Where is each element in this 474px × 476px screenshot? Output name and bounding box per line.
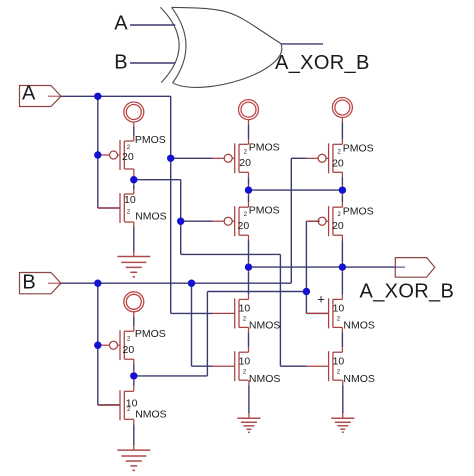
wire gate input B (130, 62, 175, 64)
node B junction at M11 gate (94, 342, 101, 349)
wire M10 source to ground (342, 380, 344, 385)
wire mid node to M4 source (248, 190, 250, 195)
wire inverter1 NMOS gate stub (98, 207, 120, 209)
wire net A to M5 gate (171, 312, 213, 314)
vdd supply V1 (inverter1) (124, 102, 144, 122)
wire net ABAR to M4 gate (181, 220, 213, 222)
wire net A vertical (170, 96, 172, 313)
svg-text:20: 20 (332, 158, 344, 170)
pmos M1 (inverter1) (98, 134, 166, 170)
svg-text:A_XOR_B: A_XOR_B (360, 280, 455, 302)
svg-text:A: A (114, 12, 128, 34)
wire M2 source to ground (133, 222, 135, 227)
wire M3 gate from net A (171, 157, 213, 159)
wire pmos mid nodes (249, 189, 343, 191)
wire net ABAR vertical (180, 180, 182, 255)
wire net ABAR vertical 2 (279, 254, 281, 366)
wire net A horizontal (61, 95, 171, 97)
pmos M11 (inverter2) (98, 328, 166, 360)
pmos M4 (column2 lower) (213, 204, 280, 236)
vdd supply V4 (inverter2) (124, 292, 144, 312)
wire M9 source to M10 drain (341, 327, 343, 332)
nmos M5 (column2 upper) (213, 298, 281, 331)
wire col3 vdd to M7 (341, 118, 343, 123)
svg-text:+: + (317, 291, 325, 306)
svg-text:PMOS: PMOS (343, 142, 374, 154)
wire node BBAR to M12 drain (133, 376, 135, 381)
wire output node to M9 drain (341, 267, 343, 272)
XOR gate U1 body (172, 7, 282, 87)
pmos M3 (column2 upper) (213, 142, 280, 174)
node BBAR junction (inverter2 out) (130, 372, 137, 379)
wire net A branch to inverter1 (97, 96, 99, 208)
wire M4 drain to output node (248, 235, 250, 240)
wire net ABAR horizontal (181, 253, 281, 255)
wire net B riser to M7 gate (290, 158, 292, 283)
svg-text:10: 10 (239, 356, 251, 368)
node pmos mid junction col2 (245, 186, 252, 193)
wire M1 drain to node ABAR (133, 169, 135, 180)
node B junction at drop (188, 280, 195, 287)
svg-text:PMOS: PMOS (135, 134, 166, 146)
nmos M6 (column2 lower) (213, 351, 281, 385)
XOR gate U1 input-side back arc (160, 7, 179, 82)
svg-text:10: 10 (333, 356, 345, 368)
wire net BBAR horizontal (207, 291, 306, 293)
wire inverter2 vdd to M11 (133, 312, 135, 317)
ground (inverter2) (117, 450, 150, 470)
wire node ABAR to M2 drain (133, 180, 135, 185)
ground (column2) (237, 418, 260, 432)
wire M7 drain to mid node (341, 172, 343, 177)
svg-text:NMOS: NMOS (249, 373, 281, 385)
svg-text:10: 10 (124, 194, 136, 206)
svg-text:NMOS: NMOS (135, 210, 167, 222)
svg-text:20: 20 (238, 220, 250, 232)
wire net BBAR down to M9 gate (305, 292, 307, 314)
port B (20, 271, 62, 294)
node BBAR junction at M8/M9 gates (303, 288, 310, 295)
svg-text:20: 20 (239, 157, 251, 169)
svg-text:NMOS: NMOS (249, 320, 281, 332)
node pmos mid junction col3 (339, 186, 346, 193)
vdd supply V3 (column3) (332, 98, 352, 118)
svg-text:PMOS: PMOS (249, 142, 280, 154)
port A (20, 83, 62, 107)
wire net BBAR from inverter2 output (134, 375, 208, 377)
nmos M2 (inverter1) (98, 193, 167, 223)
wire M12 source to ground (133, 419, 135, 424)
wire M6 source to ground (248, 380, 250, 385)
wire col2 vdd to M3 (248, 120, 250, 125)
svg-text:10: 10 (333, 302, 345, 314)
vdd supply V2 (column2) (239, 100, 259, 120)
node A junction at M1 gate (94, 151, 101, 158)
svg-text:PMOS: PMOS (135, 328, 166, 340)
svg-text:NMOS: NMOS (135, 409, 167, 421)
wire net BBAR riser (206, 292, 208, 376)
svg-text:20: 20 (332, 220, 344, 232)
node A junction at M3 gate (167, 155, 174, 162)
wire net B to M6 gate (192, 365, 213, 367)
svg-text:A_XOR_B: A_XOR_B (275, 52, 370, 74)
pmos M7 (column3 upper) (306, 142, 373, 173)
wire output node to M5 drain (248, 267, 250, 272)
svg-text:A: A (22, 83, 36, 105)
node output junction col2 (245, 263, 252, 270)
svg-text:20: 20 (123, 344, 135, 356)
node B junction at inverter branch (94, 280, 101, 287)
node ABAR junction (inverter1 out) (130, 176, 137, 183)
wire mid node to M8 source (341, 190, 343, 195)
wire net B branch to inverter2 (97, 283, 99, 405)
wire net BBAR to M9 gate stub (306, 312, 328, 314)
wire M8 drain to output node (341, 235, 343, 240)
node output junction col3 (339, 263, 346, 270)
svg-text:B: B (22, 271, 35, 293)
pmos M8 (column3 lower) (306, 206, 373, 237)
ground (column3) (331, 418, 354, 432)
wire gate output (281, 43, 323, 45)
wire net ABAR to M10 gate (280, 365, 306, 367)
svg-text:NMOS: NMOS (343, 320, 375, 332)
svg-text:20: 20 (122, 151, 134, 163)
nmos M12 (inverter2) (98, 390, 167, 420)
wire output node (249, 266, 396, 268)
port A_XOR_B (output) (395, 258, 435, 278)
wire inverter1 vdd to M1 (133, 122, 135, 127)
wire net B horizontal (61, 282, 291, 284)
ground (inverter1) (117, 257, 150, 277)
wire net BBAR up to M8 gate (305, 221, 307, 291)
wire M3 drain to mid node (248, 172, 250, 177)
wire M5 source to M6 drain (248, 327, 250, 332)
wire net ABAR from inverter1 output (134, 179, 181, 181)
wire net BBAR to M8 gate bubble (306, 220, 319, 222)
svg-text:10: 10 (239, 302, 251, 314)
nmos M9 (column3 upper) (306, 298, 375, 331)
nmos M10 (column3 lower) (306, 351, 375, 385)
svg-text:NMOS: NMOS (343, 373, 375, 385)
node A junction at inverter branch (94, 93, 101, 100)
svg-text:PMOS: PMOS (343, 206, 374, 218)
node ABAR junction at M4 gate (177, 218, 184, 225)
svg-text:B: B (114, 52, 127, 74)
svg-text:PMOS: PMOS (249, 204, 280, 216)
wire M11 drain to node BBAR (133, 359, 135, 364)
wire net B drop (191, 283, 193, 366)
wire gate input A (130, 24, 175, 26)
wire net B to M7 gate bubble (291, 157, 306, 159)
wire inverter2 NMOS gate stub (98, 404, 120, 406)
